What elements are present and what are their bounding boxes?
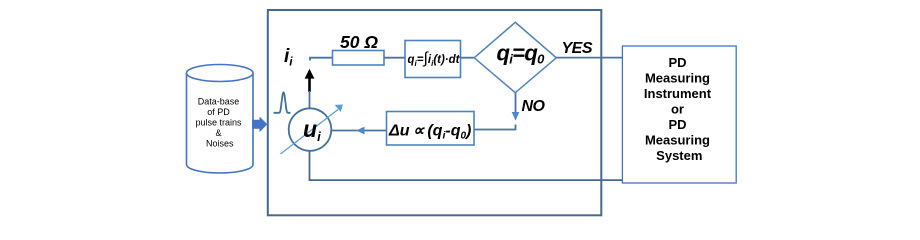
PD pulse symbol (274, 92, 291, 113)
wire: source down and to PD instrument (310, 151, 623, 180)
wire: arrow to source circle (309, 91, 311, 109)
svg-text:50 Ω: 50 Ω (340, 32, 378, 52)
resistor box (333, 51, 385, 66)
wire: delta-u box to source (332, 127, 387, 135)
wire: YES to PD instrument (556, 57, 622, 59)
wire: corner above source to resistor (310, 58, 333, 61)
svg-text:NO: NO (522, 98, 546, 115)
wire: NO arrow down (512, 93, 520, 121)
adjustment diagonal arrow (281, 105, 344, 155)
database cylinder (187, 65, 254, 174)
current arrow i (black) (305, 69, 315, 92)
wire: elbow into delta-u box (474, 125, 516, 130)
PD measuring instrument box (622, 46, 736, 183)
source circle u_i (289, 108, 332, 151)
delta-u box (387, 112, 475, 146)
svg-text:Δu ∝ (qi-q0): Δu ∝ (qi-q0) (388, 123, 471, 142)
wire: integrator to decision (461, 57, 475, 59)
input block arrow (252, 117, 267, 133)
wire: resistor to integrator (384, 57, 405, 59)
system boundary box (268, 10, 602, 215)
svg-text:YES: YES (562, 40, 593, 57)
decision diamond (474, 22, 556, 92)
integrator box (405, 41, 461, 78)
